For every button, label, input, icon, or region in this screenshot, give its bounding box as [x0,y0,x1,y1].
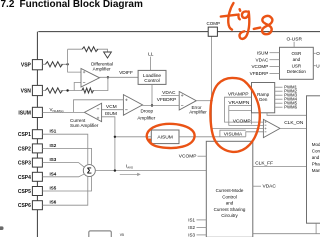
svg-text:Circuitry: Circuitry [221,213,238,218]
pin CSP6 [32,201,42,210]
svg-text:Control: Control [312,148,320,153]
svg-text:Gen: Gen [259,97,268,102]
resistor R-VSN [45,88,62,93]
wire VSN node to diff- [74,83,81,91]
svg-text:VSN: VSN [21,89,32,95]
svg-text:CSP1: CSP1 [18,132,31,138]
wire O-USR down [293,42,295,48]
summing node SIGMA [83,165,95,177]
wire PWM3 [275,94,283,96]
svg-text:CSP3: CSP3 [18,161,31,167]
svg-text:Control: Control [222,194,237,199]
wire VFBDRP tick OSR [270,73,280,75]
block Loadline Control [138,70,166,84]
wire PWM4 [275,98,283,100]
svg-text:Control: Control [144,78,159,84]
pin ISUM [32,107,42,117]
wire USR out [313,65,316,67]
pin VSN [32,85,42,95]
wire VCM [102,109,124,111]
svg-text:VCOMP: VCOMP [233,118,251,124]
svg-text:VRAMPP: VRAMPP [228,92,249,98]
wire IS1 [42,134,87,165]
svg-text:ISUM: ISUM [105,111,117,117]
wire top feedback to ground [68,49,108,52]
svg-text:Management: Management [312,168,320,173]
wire VFBDRP droop out to err- [142,105,179,107]
svg-text:Phase: Phase [312,162,320,167]
pin CSP3 [32,158,42,167]
wire COMP vertical [211,36,213,128]
node VSN-A [66,89,68,91]
wire PWM5 [275,102,283,104]
svg-text:Differential: Differential [91,61,113,66]
svg-text:Amplifier: Amplifier [93,67,111,72]
svg-text:CSP2: CSP2 [18,146,31,152]
svg-text:VCOMP: VCOMP [179,154,197,160]
wire CLK_ON [280,127,307,129]
svg-text:Σ: Σ [87,167,92,176]
wire PWM2 [275,90,283,92]
wire VDAC tick OSR [270,59,280,61]
wire mode box stub [315,223,317,234]
pin CSP5 [32,187,42,196]
comparator U-CLKON [263,119,280,137]
svg-text:VCM: VCM [106,104,117,110]
wire LL down [150,57,152,71]
wire VDIFF [100,76,139,78]
svg-text:Amplifier: Amplifier [189,110,207,115]
wire node up/down to diff+ [68,49,81,72]
wire ISUM net [102,117,115,171]
svg-text:CLK_ON: CLK_ON [284,120,304,126]
svg-text:VDAC: VDAC [162,90,176,96]
svg-text:VDAC: VDAC [263,184,277,190]
wire VCOMP tick OSR [270,66,280,68]
wire IS4 [42,174,84,177]
svg-text:and: and [226,201,234,206]
block AISUM [151,130,179,144]
node VFBDRP-junction [151,104,153,106]
wire VCOMP tick left [198,155,207,157]
svg-text:VDAC: VDAC [256,57,269,62]
wire AISUM input [115,136,151,138]
svg-text:Sum Amplifier: Sum Amplifier [70,123,99,128]
svg-text:IS1: IS1 [188,217,195,222]
resistor R-VSP [45,62,62,67]
wire IS6 [42,176,87,205]
wire IS3 [42,163,84,168]
block Mode Control and Phase Management [307,96,320,223]
wire loadline to VFBDRP net [151,84,153,105]
wire VSN row [42,77,108,90]
wire OSR out [313,52,316,54]
annotation AISUM ellipse [147,124,195,148]
svg-text:IS3: IS3 [50,157,57,162]
wire ramp gen to mode box [267,113,307,116]
pin CSP1 [32,130,42,139]
op-amp U-DROOP Droop Amplifier [123,95,142,116]
block bottom-left [89,231,112,240]
svg-text:V5: V5 [120,233,124,237]
svg-text:IS4: IS4 [50,171,57,176]
svg-text:OSR: OSR [292,51,303,56]
wire VDAC tick right [253,185,261,187]
block Current-Mode Control and Current Sharing Circuitry [206,141,253,237]
svg-text:CLK_FF: CLK_FF [255,161,273,167]
svg-text:AISUM: AISUM [157,135,173,141]
svg-text:VFBDRP: VFBDRP [157,97,176,103]
wire droop+ input [74,100,124,113]
svg-text:Loadline: Loadline [143,73,161,79]
wire VRAMPP [225,97,264,122]
wire VRAMPN [229,106,264,126]
svg-text:and: and [312,155,320,160]
wire PWM6 [275,106,283,108]
wire IS1 tick bottom [197,219,207,221]
resistor R-FB [82,88,94,93]
left pin column wire [36,32,38,237]
top bus wire [38,31,320,33]
svg-text:OSR: OSR [316,51,320,56]
node AISUM-in [114,136,116,138]
svg-text:Current-Mode: Current-Mode [216,188,244,193]
pin VSP [32,60,42,70]
svg-text:USR: USR [316,63,320,68]
svg-text:Current: Current [70,118,86,123]
svg-text:Mode: Mode [312,142,320,147]
arrow IAVG direction [120,173,138,175]
node COMP-net [210,100,212,102]
wire VCOMP net to comparator [212,128,264,130]
svg-text:IS3: IS3 [188,232,195,237]
svg-text:PWM6: PWM6 [284,105,298,110]
svg-text:VFBDRP: VFBDRP [250,71,269,76]
wire AISUM out / VISUMA [179,136,246,138]
svg-text:VSP: VSP [21,62,32,68]
annotation big ellipse [210,78,259,152]
svg-text:and: and [293,57,301,62]
svg-text:ISUM: ISUM [257,50,269,55]
svg-text:Droop: Droop [141,109,154,114]
wire ISUM pin to amp [42,111,84,113]
svg-text:IS2: IS2 [188,225,195,230]
op-amp U-ERR Error Amplifier [179,92,196,111]
op-amp U-CSUM Current Sum Amplifier [84,103,101,121]
svg-text:Detection: Detection [287,69,307,74]
svg-text:LL: LL [148,51,154,57]
svg-text:CSP4: CSP4 [18,175,31,181]
resistor R-top [82,47,98,52]
block Ramp Gen [252,83,275,113]
svg-text:Functional Block Diagram: Functional Block Diagram [20,0,143,10]
op-amp U-DIFF Differential Amplifier [81,69,100,88]
svg-text:IS5: IS5 [50,186,57,191]
wire VCOMP box [229,110,252,124]
svg-text:VISUMA: VISUMA [224,132,243,138]
wire IS5 [42,176,91,191]
svg-text:IS6: IS6 [50,200,57,205]
svg-text:ISUM: ISUM [18,110,31,116]
wire IS2 tick bottom [197,226,207,228]
svg-text:COMP: COMP [207,21,221,26]
svg-text:USR: USR [292,64,302,69]
wire bottom bus [253,233,320,235]
wire VSP row [42,63,67,65]
wire error out [196,100,211,102]
pin CSP4 [32,172,42,181]
block OSR and USR Detection [280,47,314,79]
svg-text:Amplifier: Amplifier [137,116,155,121]
pin COMP [208,27,217,36]
wire IS3 tick bottom [197,234,207,236]
svg-text:VRAMPN: VRAMPN [228,100,249,106]
node IAVG [114,169,116,171]
annotation fig-8 handwriting [221,3,273,39]
svg-text:VDIFF: VDIFF [119,70,133,76]
svg-text:7.2: 7.2 [1,0,15,10]
wire IS2 [42,148,91,165]
pin CSP2 [32,144,42,153]
svg-text:Current Sharing: Current Sharing [214,207,246,212]
left edge mark [0,226,4,230]
svg-text:IS2: IS2 [50,143,57,148]
wire ISUM tick OSR [270,52,280,54]
wire CLK_FF [253,165,307,167]
wire IAVG [95,170,206,172]
node VSP-A [66,63,68,65]
svg-text:CSP5: CSP5 [18,189,31,195]
node DIFF-OUT [107,76,109,78]
wire PWM1 [275,86,283,88]
wire VDAC into err+ [161,94,179,96]
svg-text:CSP6: CSP6 [18,203,31,209]
svg-text:IS1: IS1 [50,129,57,134]
wire VISUMA outline [220,130,264,137]
svg-text:VCOMP: VCOMP [251,64,268,69]
ground [104,52,112,58]
